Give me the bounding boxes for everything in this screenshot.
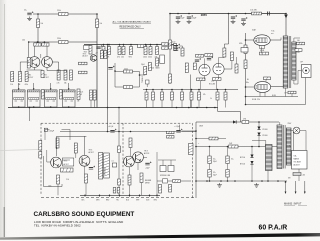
svg-text:CARLSBRO SOUND EQUIPMENT: CARLSBRO SOUND EQUIPMENT: [34, 211, 135, 218]
resistor R12 right of jacks: [77, 89, 80, 100]
svg-text:SPRING LINE: SPRING LINE: [160, 175, 170, 177]
resistor bus-drop 7: [150, 45, 152, 47]
wire tube top pins: [204, 58, 206, 64]
svg-text:220k: 220k: [124, 69, 128, 71]
wire trem net: [46, 150, 48, 162]
resistor R51 psu: [242, 121, 249, 124]
svg-text:100: 100: [297, 40, 300, 42]
pot on dashed line: [189, 144, 194, 155]
resistor R50 bottom: [169, 185, 172, 193]
wire TR1 emitter: [34, 67, 36, 70]
nfb wire a: [246, 96, 299, 98]
capacitor C16 psu: [226, 170, 229, 178]
resistor on x119 a: [118, 146, 121, 153]
resistor R26 stack b: [162, 47, 169, 49]
bottom tick 4: [119, 195, 121, 197]
resistor R24 on x170: [169, 40, 172, 49]
transistor TR6: [79, 155, 90, 166]
svg-text:S.A.: S.A.: [294, 155, 298, 158]
svg-text:285V: 285V: [201, 13, 207, 17]
resistor R10b: [70, 70, 73, 80]
note line 2 underline: [120, 28, 145, 30]
svg-text:+25µF: +25µF: [145, 168, 150, 170]
node psu: [258, 121, 260, 123]
diode D2: [257, 127, 260, 130]
capacitor C12: [176, 129, 182, 132]
speaker jack box: [302, 65, 312, 78]
resistor lower-mid 8: [217, 90, 219, 93]
capacitor C5 bus: [187, 15, 193, 18]
svg-text:220k: 220k: [57, 38, 61, 40]
ground bus main: [8, 107, 218, 109]
wire lamp: [291, 130, 294, 132]
node ch1 feed dot: [37, 13, 39, 15]
resistor R12a mid jacks: [60, 90, 63, 100]
wire bottom right cluster: [157, 180, 191, 182]
resistor bus-drop 1: [103, 45, 105, 47]
wire fuse: [298, 169, 300, 173]
tremolo dashed box left: [40, 123, 42, 195]
node J3 bottom: [50, 106, 52, 108]
wire rev net: [130, 148, 132, 157]
svg-text:N.F.B. 22k: N.F.B. 22k: [252, 99, 260, 101]
wire diode stack2: [251, 147, 253, 155]
vertical x170: [169, 14, 171, 85]
mains input underline: [284, 204, 295, 206]
svg-text:32µF: 32µF: [213, 161, 217, 163]
svg-text:25µF: 25µF: [141, 64, 145, 66]
svg-text:AC107: AC107: [89, 151, 94, 154]
svg-text:AC107: AC107: [44, 76, 49, 79]
cluster top left of tubes: [241, 17, 247, 20]
pilot lamp: [293, 127, 300, 134]
resistor R29 below a: [197, 78, 206, 81]
nfb wire b: [246, 104, 306, 106]
wire V3 grid: [246, 86, 255, 88]
svg-text:220k: 220k: [57, 10, 61, 12]
main vertical supply wire x97: [96, 14, 98, 108]
resistor lower-mid 4: [171, 90, 173, 93]
bottom tick 3: [109, 195, 111, 197]
svg-text:BLK: BLK: [82, 199, 85, 201]
wire caps: [209, 147, 211, 157]
resistor R23 low: [93, 90, 96, 100]
wire transducer: [162, 160, 164, 166]
resistor R41 trem: [56, 138, 59, 148]
svg-text:1k: 1k: [210, 98, 212, 100]
capacitor C9 trem: [112, 163, 116, 167]
node J1 bottom: [18, 106, 20, 108]
resistor R35 screen a: [260, 52, 269, 55]
mains drop 3: [304, 181, 306, 192]
resistor R42 trem: [74, 143, 77, 153]
capacitor C3 ch2: [108, 66, 114, 69]
svg-text:CH1: CH1: [243, 119, 246, 121]
wire OT sec top: [293, 38, 295, 42]
svg-text:AC128: AC128: [144, 152, 149, 155]
resistor R34 left rail: [244, 60, 247, 69]
svg-text:AC107: AC107: [64, 163, 69, 166]
svg-text:470: 470: [117, 57, 120, 59]
wire to psu: [182, 130, 196, 132]
svg-text:10k: 10k: [22, 40, 25, 42]
node J2 bottom: [33, 106, 35, 108]
svg-text:a-a: a-a: [271, 33, 274, 35]
svg-text:470k: 470k: [239, 43, 243, 45]
resistor R19: [146, 80, 150, 84]
capacitor C13 psu: [208, 156, 211, 164]
transistor TR3: [90, 55, 97, 62]
connector output stage: [241, 48, 248, 53]
wire xfmr top: [279, 122, 281, 125]
wire selector: [290, 152, 293, 154]
tremolo dashed bottom: [41, 197, 196, 199]
resistor bus-drop 5: [130, 45, 132, 47]
resistor R44 rev: [129, 138, 132, 148]
capacitor C4 bus: [176, 15, 182, 18]
transistor TR2: [42, 57, 53, 68]
resistor R11 mid: [41, 71, 44, 78]
resistor R48 stack a: [167, 131, 175, 134]
connector CH2 b: [79, 71, 88, 74]
node bus x228.5: [228, 13, 230, 15]
svg-text:32µF: 32µF: [213, 174, 217, 176]
resistor R49 bottom: [159, 185, 162, 194]
cap C2 on bus: [96, 45, 102, 48]
resistor R39 nfb: [288, 91, 296, 94]
triode V1a: [199, 64, 210, 75]
resistor pair above bus a: [113, 188, 116, 194]
bottom tick 5: [129, 195, 131, 197]
svg-text:GRN: GRN: [96, 199, 99, 201]
svg-text:BY100: BY100: [263, 129, 268, 131]
reverb transducer a: [160, 166, 166, 172]
wire ch2 lows: [90, 100, 92, 108]
HT bus top: [170, 13, 286, 15]
resistor R15 pair a: [100, 51, 103, 59]
supply bus y44.5: [84, 44, 174, 46]
svg-text:470k: 470k: [25, 84, 29, 86]
capacitor C14 psu: [208, 170, 211, 178]
resistor R8b: [25, 72, 28, 82]
svg-text:ECC83: ECC83: [209, 84, 215, 86]
ground bus drop: [29, 108, 31, 122]
wire TR2 base: [52, 61, 58, 63]
svg-text:TREBLE: TREBLE: [142, 75, 144, 83]
resistor ch2col: [89, 46, 92, 55]
resistor R16 h: [124, 70, 133, 73]
svg-text:AC107: AC107: [28, 76, 33, 79]
svg-text:2.2k: 2.2k: [10, 84, 13, 86]
svg-text:47k: 47k: [203, 94, 206, 96]
wire V3 anode: [271, 85, 286, 87]
svg-text:VR 500k: VR 500k: [105, 167, 107, 175]
resistor R1 (ch1 feed): [59, 13, 69, 16]
tremolo dashed divider: [122, 123, 124, 195]
capacitor C17 top: [267, 12, 269, 16]
wire J2 up: [33, 86, 35, 91]
ground sym psu b: [217, 183, 222, 187]
wire J1 up: [18, 86, 20, 91]
svg-text:32+: 32+: [213, 159, 216, 161]
resistor R43 under TR5: [57, 175, 60, 184]
capacitor C7 trem: [44, 128, 47, 131]
resistor R27b top a: [196, 55, 204, 58]
feedback loop wire TR5: [43, 156, 45, 187]
resistor R51b bottom h: [173, 180, 181, 183]
svg-text:RESISTANCE ONLY: RESISTANCE ONLY: [120, 26, 142, 29]
wire x190 vertical: [190, 75, 192, 108]
supply wire rev: [60, 131, 196, 133]
bottom scan band: [0, 233, 320, 240]
wire TR2 emitter: [46, 67, 48, 70]
mains transformer primary: [277, 125, 282, 169]
fuse: [293, 173, 301, 176]
node second feed: [37, 41, 39, 43]
svg-text:VR1: VR1: [129, 57, 132, 59]
svg-text:220k: 220k: [148, 57, 152, 59]
resistor R21: [156, 58, 159, 66]
resistor lower-mid 9: [225, 90, 227, 93]
bottom tick 1: [84, 195, 86, 197]
svg-text:AC107: AC107: [83, 55, 88, 58]
wire C1 to junction: [33, 13, 38, 15]
mid bus y89.5: [143, 89, 238, 91]
wire tone join: [133, 71, 140, 73]
capacitor C15 psu: [226, 156, 229, 164]
tube V2 bottom stubs: [259, 46, 261, 49]
resistor lower-mid 6: [191, 90, 193, 93]
ground under C1: [27, 17, 32, 21]
resistor bus-drop 2: [108, 45, 110, 47]
svg-text:BLU: BLU: [126, 199, 129, 201]
svg-text:A.C. VOLTAGES MEASURED ON AVO: A.C. VOLTAGES MEASURED ON AVO: [113, 20, 152, 23]
pot speed horizontal: [61, 168, 74, 172]
svg-text:0.02: 0.02: [172, 42, 175, 44]
wire TR1 base lead: [20, 61, 29, 63]
corner dot x170 top: [169, 13, 171, 15]
resistor bus-drop 3: [119, 45, 121, 47]
reverb transducer b: [168, 166, 174, 172]
resistor R12b mid jacks: [42, 90, 45, 100]
node HT right: [285, 13, 287, 15]
speaker jack circle: [303, 67, 309, 73]
jack J4: [63, 90, 76, 107]
mains drop 1: [285, 181, 287, 192]
resistor R27c top b: [205, 54, 213, 57]
wire ch1 top feed: [38, 13, 97, 15]
resistor R8c: [27, 58, 30, 69]
transistor TR8: [133, 152, 144, 163]
resistor lower-mid 1: [146, 90, 148, 93]
resistor R4 on x97: [96, 19, 99, 28]
svg-text:2.2k: 2.2k: [66, 179, 69, 181]
psu ground wire: [196, 180, 287, 182]
pot VR2 tall a: [99, 153, 103, 180]
svg-text:+ 4.7µF: + 4.7µF: [174, 126, 180, 128]
svg-text:0.25: 0.25: [80, 92, 83, 94]
svg-text:50k: 50k: [152, 68, 155, 70]
resistor lower-mid 5: [181, 90, 183, 93]
wire ch1 second feed: [28, 41, 97, 43]
svg-text:TR 5: TR 5: [64, 160, 68, 162]
wire right edge down: [305, 78, 307, 105]
psu mid wire: [196, 146, 277, 148]
capacitor C10 rev: [145, 162, 151, 165]
resistor on x119 b: [118, 179, 121, 185]
resistor R15 pair b: [104, 51, 107, 59]
resistor R26 stack a: [162, 43, 169, 45]
output transformer secondary: [292, 42, 296, 80]
resistor R30 right col: [223, 48, 226, 57]
wire J3 up: [50, 86, 52, 91]
node J4 bottom: [68, 106, 70, 108]
mains drop 2: [295, 181, 297, 192]
svg-text:µF: µF: [80, 94, 82, 96]
left margin shading: [0, 0, 7, 237]
wire tube bottom pins: [200, 81, 202, 90]
svg-text:60 P.A./R: 60 P.A./R: [259, 225, 288, 232]
svg-text:1.5k 5W: 1.5k 5W: [250, 10, 257, 12]
diode D3: [257, 133, 260, 136]
resistor lower-mid 7: [198, 90, 200, 93]
resistor R28b left col: [193, 63, 196, 70]
resistor R40b trem: [39, 152, 42, 159]
ground C5: [187, 20, 192, 24]
resistor R25 on x170: [169, 74, 172, 83]
wire TR pair top: [34, 46, 36, 57]
svg-text:10k: 10k: [121, 57, 124, 59]
resistor R10: [64, 70, 67, 80]
resistor R33 left rail: [244, 45, 247, 54]
svg-text:100k: 100k: [48, 186, 52, 188]
svg-text:REVERB: REVERB: [145, 180, 151, 182]
pot VR2 tall b: [104, 153, 110, 178]
bottom tick 8: [156, 195, 158, 197]
transistor TR7: [124, 156, 135, 167]
jack J3: [45, 90, 58, 107]
svg-text:25+: 25+: [24, 10, 27, 12]
resistor R2 vertical: [37, 19, 40, 28]
wire ch2 mid: [140, 74, 146, 76]
tube V3 EL84 lower: [254, 82, 270, 93]
sub bus right: [218, 111, 241, 113]
resistor R17 h: [124, 86, 133, 89]
svg-text:MAINS INPUT: MAINS INPUT: [284, 202, 302, 206]
tremolo dashed box top: [41, 122, 191, 124]
resistor R43b under TR6: [85, 174, 88, 183]
resistor R38 out b: [295, 49, 302, 52]
jack J2: [28, 90, 41, 107]
resistor R47 rev: [140, 173, 143, 183]
svg-text:56k: 56k: [64, 83, 67, 85]
resistor lower-mid 2: [152, 90, 154, 93]
resistor R5 above TR1: [34, 43, 41, 46]
ground sym psu: [254, 183, 259, 187]
resistor R9: [57, 70, 60, 80]
resistor R20: [148, 63, 151, 71]
svg-text:SCN: SCN: [146, 199, 149, 201]
junction dots mains: [261, 180, 263, 182]
psu ground dots: [206, 180, 208, 182]
svg-text:CH2: CH2: [229, 143, 232, 145]
svg-text:10k: 10k: [41, 23, 44, 25]
svg-text:YEL: YEL: [116, 199, 119, 201]
vertical x228.5: [228, 14, 230, 45]
wire TR pair join: [40, 54, 42, 58]
resistor R22 low: [90, 90, 93, 100]
wire screen b: [265, 80, 267, 82]
diode D4: [250, 155, 253, 158]
resistor on-bus h: [138, 44, 147, 47]
tube V3 bottom stubs: [259, 92, 261, 96]
wire tube right: [224, 68, 232, 70]
psu wire y138: [196, 138, 209, 140]
capacitor C6 pair: [174, 44, 180, 47]
ground C4: [176, 20, 181, 24]
svg-text:WHT: WHT: [136, 199, 139, 201]
svg-text:0.1: 0.1: [112, 161, 114, 163]
wire C7: [45, 129, 50, 131]
mains transformer core: [283, 125, 285, 169]
psu left rail: [195, 122, 197, 198]
capacitor C11 sup: [110, 129, 116, 132]
vertical wire x119: [118, 108, 120, 196]
resistor R18: [144, 67, 147, 75]
mains voltage selector box: [292, 151, 308, 170]
wire R2 down: [37, 14, 39, 19]
svg-text:EL: EL: [247, 79, 249, 81]
bus junction x170: [169, 44, 171, 46]
resistor bus x175: [174, 44, 177, 51]
resistor R52 psu mid: [229, 145, 239, 148]
resistor R27: [181, 48, 184, 56]
resistor R3 (second feed): [59, 41, 69, 44]
svg-text:TEL KIRKBY-IN-ASHFIELD 3902: TEL KIRKBY-IN-ASHFIELD 3902: [34, 224, 81, 228]
bottom tick 7: [149, 195, 151, 197]
tube V2 EL84 upper: [254, 35, 270, 46]
resistor lower-mid 3: [161, 90, 163, 93]
resistor bus-drop 6: [145, 45, 147, 47]
svg-text:50µF: 50µF: [181, 18, 185, 20]
resistor R6: [11, 72, 14, 82]
node ch2: [114, 70, 116, 72]
capacitor C1 input: [27, 11, 33, 14]
vertical wire x107.5: [107, 45, 109, 132]
svg-text:32+: 32+: [213, 172, 216, 174]
connector PI left: [160, 55, 165, 64]
bottom tick 2: [99, 195, 101, 197]
wire J4 up: [68, 86, 70, 91]
note line 1 underline: [113, 22, 152, 24]
tremolo dashed box right: [192, 123, 194, 198]
wire tube bottoms: [204, 76, 206, 80]
svg-text:4.7k: 4.7k: [57, 83, 60, 85]
transistor TR5: [51, 157, 62, 168]
resistor bus-drop 4: [123, 45, 125, 47]
wire sec to jack: [293, 80, 295, 84]
resistor pair above bus b: [117, 188, 120, 194]
ground bus dots: [176, 107, 178, 109]
wire V2 grid: [246, 39, 254, 41]
svg-text:BY100: BY100: [240, 164, 245, 166]
cap on bus x233: [231, 15, 237, 18]
mains transformer tap winding: [266, 145, 273, 171]
resistor R31 right col: [230, 52, 233, 61]
resistor R29b below b: [213, 78, 222, 81]
resistor R5b above TR2: [42, 43, 49, 46]
wire V2 anode: [270, 39, 281, 41]
